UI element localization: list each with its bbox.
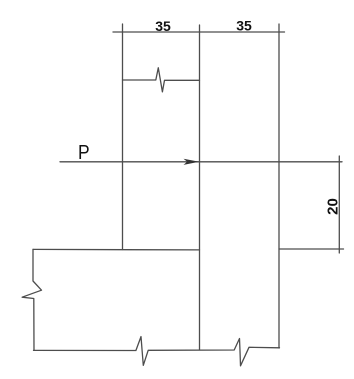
svg-text:35: 35 xyxy=(155,18,171,34)
svg-text:20: 20 xyxy=(324,198,341,215)
svg-text:35: 35 xyxy=(236,17,252,33)
svg-text:P: P xyxy=(78,142,90,165)
